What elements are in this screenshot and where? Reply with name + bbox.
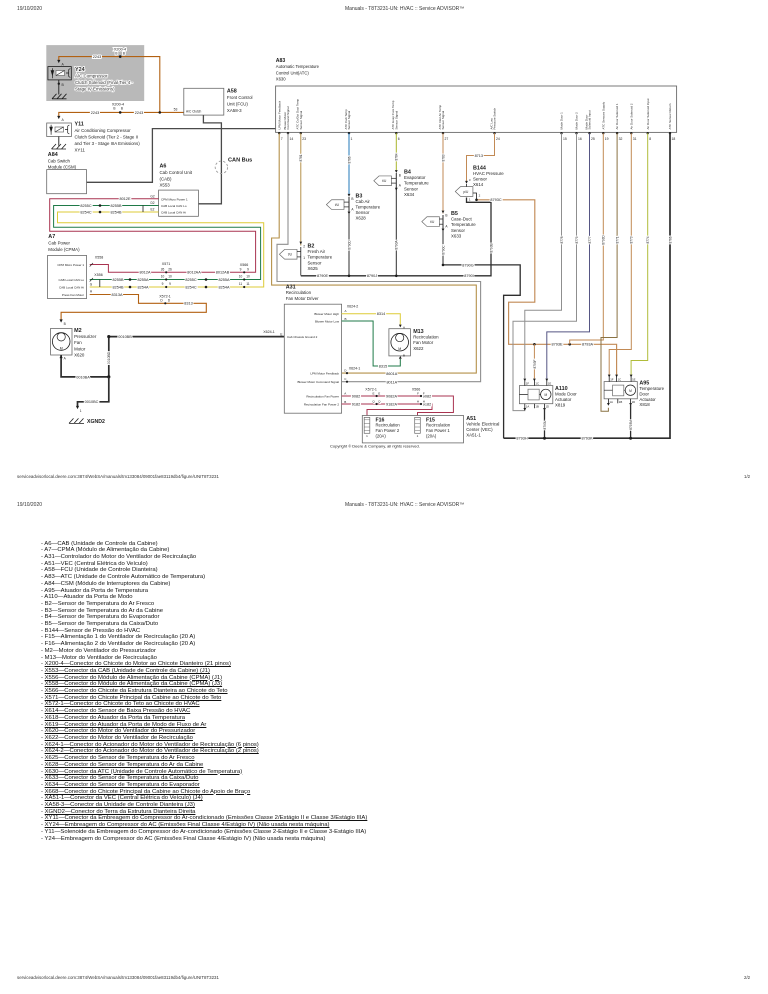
fuse F16 <box>364 417 370 433</box>
svg-text:31: 31 <box>633 137 637 141</box>
svg-text:F: F <box>417 391 419 395</box>
svg-text:Recirculation: Recirculation <box>426 423 451 428</box>
svg-text:CPM Micro Power 1: CPM Micro Power 1 <box>161 197 188 201</box>
svg-text:B: B <box>113 107 115 111</box>
wire 8774 (pin8 to A95 1E) <box>631 133 648 375</box>
svg-text:Pressurizer: Pressurizer <box>74 334 97 339</box>
svg-text:1E: 1E <box>548 382 552 386</box>
svg-text:Automatic Temperature: Automatic Temperature <box>276 64 320 69</box>
svg-text:X630: X630 <box>276 77 286 82</box>
svg-text:Actuator: Actuator <box>555 397 572 402</box>
svg-text:3: 3 <box>469 178 471 182</box>
svg-text:8786: 8786 <box>347 156 351 163</box>
svg-text:B: B <box>115 52 117 56</box>
svg-text:X628: X628 <box>356 216 367 221</box>
svg-text:A84: A84 <box>48 152 58 158</box>
svg-text:9182A: 9182A <box>386 402 397 406</box>
svg-text:B: B <box>345 317 347 321</box>
svg-text:11: 11 <box>246 282 250 286</box>
svg-text:Temperature: Temperature <box>308 255 333 260</box>
wire 8793C/8793E/8793A (sensor supply) <box>477 200 617 375</box>
svg-text:Vehicle Electrical: Vehicle Electrical <box>466 421 499 426</box>
svg-text:6: 6 <box>398 137 400 141</box>
svg-text:8255A: 8255A <box>219 278 230 282</box>
CAN terminator stub (A7) <box>99 280 101 288</box>
wire 8784 (A83 pin6 to B4) <box>395 133 397 170</box>
wire 8790E/8790J/8790I (sensor return) <box>301 198 491 276</box>
svg-text:A: A <box>445 224 448 228</box>
svg-text:CAB Local CAN Lo: CAB Local CAN Lo <box>161 204 187 208</box>
wire Y11 to ground <box>58 137 60 146</box>
svg-text:CPM Micro Power 1: CPM Micro Power 1 <box>57 263 84 267</box>
ground XGND2 <box>69 418 84 423</box>
svg-text:1: 1 <box>303 256 305 260</box>
svg-text:CAN Bus: CAN Bus <box>228 158 252 164</box>
wire 8313A/8313 (A7 to M2) <box>61 295 206 320</box>
svg-text:X572-1: X572-1 <box>365 388 377 392</box>
svg-text:23: 23 <box>302 137 306 141</box>
svg-text:8773: 8773 <box>630 236 634 243</box>
svg-text:2: 2 <box>303 244 305 248</box>
svg-text:CAB Local CAN Hi: CAB Local CAN Hi <box>161 210 186 214</box>
svg-text:B: B <box>403 354 405 358</box>
svg-text:X624-1: X624-1 <box>263 330 275 334</box>
svg-text:8793D: 8793D <box>602 235 606 245</box>
svg-text:8793E: 8793E <box>552 343 563 347</box>
svg-text:Door: Door <box>639 391 649 396</box>
svg-text:A58: A58 <box>227 88 237 94</box>
svg-text:X634: X634 <box>404 192 415 197</box>
svg-text:8784: 8784 <box>395 153 399 160</box>
svg-text:B: B <box>351 197 353 201</box>
svg-text:8781: 8781 <box>299 154 303 161</box>
svg-text:Mode Door 2: Mode Door 2 <box>575 112 579 130</box>
svg-text:Clutch Solenoid (Final Tier 4: Clutch Solenoid (Final Tier 4 - <box>75 80 133 85</box>
svg-text:1: 1 <box>80 409 82 413</box>
svg-text:D: D <box>344 369 347 373</box>
svg-text:t/U: t/U <box>382 179 387 183</box>
svg-text:Command Signal: Command Signal <box>286 106 290 129</box>
svg-text:D: D <box>168 299 171 303</box>
svg-text:15: 15 <box>563 137 567 141</box>
svg-text:H: H <box>90 289 93 293</box>
svg-text:Mode Door 1: Mode Door 1 <box>560 112 564 130</box>
svg-text:10: 10 <box>246 275 250 279</box>
svg-text:A/C Compressor: A/C Compressor <box>75 73 108 78</box>
actuator A95 (temperature door) <box>604 382 637 399</box>
svg-text:Stage IV Emissions): Stage IV Emissions) <box>75 87 115 92</box>
svg-text:2243: 2243 <box>93 55 101 59</box>
svg-text:8793H: 8793H <box>516 437 527 441</box>
wire 0010BC to ground XGND2 <box>78 377 109 407</box>
svg-text:Sensor: Sensor <box>451 228 465 233</box>
svg-text:0010BB: 0010BB <box>118 335 132 339</box>
svg-text:(20A): (20A) <box>376 434 387 439</box>
svg-text:Fan Motor: Fan Motor <box>413 340 434 345</box>
svg-text:Recirculation: Recirculation <box>413 335 439 340</box>
svg-text:8254B: 8254B <box>113 285 124 289</box>
motor M13 (recirculation fan) <box>399 325 402 328</box>
svg-text:2243: 2243 <box>135 111 143 115</box>
svg-text:8793K: 8793K <box>582 437 593 441</box>
wire 8793D (pin19 to supply) <box>570 133 604 344</box>
svg-text:XY11: XY11 <box>75 148 86 153</box>
svg-text:Air Door Solenoid 2: Air Door Solenoid 2 <box>629 103 633 129</box>
svg-text:Recirculation Fan Power 2: Recirculation Fan Power 2 <box>304 403 340 407</box>
svg-text:X556: X556 <box>94 273 102 277</box>
svg-text:Sensor Signal: Sensor Signal <box>299 110 303 129</box>
svg-text:1B: 1B <box>535 405 539 409</box>
svg-text:1D: 1D <box>546 405 550 409</box>
svg-text:HVAC Pressure: HVAC Pressure <box>473 171 504 176</box>
svg-text:1: 1 <box>469 198 471 202</box>
svg-text:Temperature: Temperature <box>639 386 664 391</box>
svg-text:t/U: t/U <box>430 220 435 224</box>
svg-text:M: M <box>60 346 63 350</box>
ground (Y24) <box>52 94 67 99</box>
svg-text:and Tier 3 - Stage IIIA Emissi: and Tier 3 - Stage IIIA Emissions) <box>75 141 141 146</box>
svg-text:8793F: 8793F <box>533 359 537 368</box>
svg-text:Fan: Fan <box>74 340 82 345</box>
svg-text:Copyright © Deere & Company, a: Copyright © Deere & Company, all rights … <box>330 443 420 448</box>
svg-text:Sensor: Sensor <box>308 260 322 265</box>
svg-text:Sensor Signal: Sensor Signal <box>441 110 445 129</box>
svg-text:Center (VEC): Center (VEC) <box>466 427 493 432</box>
svg-text:B: B <box>344 400 346 404</box>
svg-text:9: 9 <box>247 268 249 272</box>
svg-text:14: 14 <box>290 137 294 141</box>
motor M2 (pressurizer fan) <box>60 319 63 322</box>
svg-text:Cab Chassis Ground 2: Cab Chassis Ground 2 <box>287 335 318 339</box>
svg-text:(CAB): (CAB) <box>160 176 172 181</box>
svg-text:Temperature: Temperature <box>356 205 381 210</box>
svg-text:F: F <box>423 391 425 395</box>
svg-text:Y24: Y24 <box>75 67 85 73</box>
svg-text:E: E <box>372 391 374 395</box>
svg-text:X624-1: X624-1 <box>349 367 361 371</box>
fuse F15 <box>415 417 421 433</box>
wire 8793L (A110 1D to ground line) <box>544 408 546 438</box>
svg-text:8254A: 8254A <box>219 285 230 289</box>
wire 8779 (pin16 to A110 1A) <box>513 133 577 410</box>
svg-text:Recirculation Fan Power: Recirculation Fan Power <box>306 394 339 398</box>
svg-text:XA51-1: XA51-1 <box>466 432 481 437</box>
svg-text:Blower Motor Command Signal: Blower Motor Command Signal <box>297 380 339 384</box>
svg-text:E: E <box>378 391 380 395</box>
svg-text:Motor: Motor <box>74 346 86 351</box>
wire 8777 (pin25 to A110 1E) <box>547 133 590 378</box>
svg-text:X622: X622 <box>413 346 424 351</box>
svg-text:Sensor: Sensor <box>473 177 487 182</box>
svg-text:X558: X558 <box>95 256 103 260</box>
svg-text:A: A <box>345 309 347 313</box>
svg-text:11: 11 <box>239 282 243 286</box>
svg-text:ATC Sensor Return: ATC Sensor Return <box>668 103 672 129</box>
svg-text:1F: 1F <box>526 382 530 386</box>
svg-text:8793L: 8793L <box>543 420 547 429</box>
svg-text:0010BA: 0010BA <box>76 375 90 379</box>
svg-text:9: 9 <box>169 282 171 286</box>
wire 8793F (supply to A110 1C) <box>533 344 535 378</box>
svg-text:8255B: 8255B <box>111 204 122 208</box>
svg-text:Blower Motor High: Blower Motor High <box>314 312 339 316</box>
svg-text:G: G <box>90 283 93 287</box>
wire 9182 (A31 recirc fan power 2 to F16) <box>342 404 432 416</box>
svg-text:8790C: 8790C <box>441 245 445 255</box>
svg-text:X625: X625 <box>308 266 319 271</box>
svg-text:8012AA: 8012AA <box>187 271 201 275</box>
svg-text:Fan Motor Driver: Fan Motor Driver <box>286 296 319 301</box>
wire 8012E/8012A loop (A6 to A7) <box>50 199 256 272</box>
svg-text:Sensor Signal: Sensor Signal <box>394 110 398 129</box>
wire CAN (A84 to A83) <box>87 129 276 183</box>
svg-text:A: A <box>344 392 346 396</box>
svg-text:Unit (FCU): Unit (FCU) <box>227 102 249 107</box>
wire M2 pin A <box>61 355 109 377</box>
svg-text:D: D <box>160 299 163 303</box>
svg-text:Module (CPMA): Module (CPMA) <box>48 247 80 252</box>
svg-text:1: 1 <box>351 137 353 141</box>
svg-text:CAB Local CAN Hi: CAB Local CAN Hi <box>59 285 84 289</box>
pressure sensor B144 (HVAC) <box>465 181 468 184</box>
svg-text:X553: X553 <box>160 183 171 188</box>
svg-text:10: 10 <box>161 275 165 279</box>
svg-text:10: 10 <box>168 275 172 279</box>
svg-text:8315: 8315 <box>379 364 387 368</box>
svg-text:A: A <box>351 208 354 212</box>
svg-text:1C: 1C <box>618 378 622 382</box>
svg-text:XA58-3: XA58-3 <box>227 108 242 113</box>
svg-text:8255B: 8255B <box>113 278 124 282</box>
svg-text:B: B <box>399 173 401 177</box>
svg-text:M: M <box>398 347 401 351</box>
svg-text:ATC Sensors Supply: ATC Sensors Supply <box>601 101 605 129</box>
svg-text:10: 10 <box>239 275 243 279</box>
svg-text:Recirculation: Recirculation <box>286 290 312 295</box>
svg-text:8783: 8783 <box>441 154 445 161</box>
svg-text:Cab Power: Cab Power <box>48 240 70 245</box>
svg-text:53: 53 <box>174 108 178 112</box>
svg-text:8255C: 8255C <box>185 278 196 282</box>
ground (XY11) <box>52 144 67 149</box>
svg-text:Evaporator: Evaporator <box>404 175 426 180</box>
svg-text:t/U: t/U <box>288 253 293 257</box>
svg-text:1B: 1B <box>619 400 623 404</box>
wire 8255 loop (A6 to A7) <box>54 206 261 280</box>
svg-text:8790I: 8790I <box>464 274 474 278</box>
svg-text:Sensor: Sensor <box>404 186 418 191</box>
svg-text:8793M: 8793M <box>629 420 633 430</box>
svg-text:8012A: 8012A <box>140 271 151 275</box>
svg-text:8779: 8779 <box>575 236 579 243</box>
svg-text:8713: 8713 <box>475 154 483 158</box>
wire 8315 (A31 to M13 B) <box>342 321 401 366</box>
svg-text:8313: 8313 <box>184 302 192 306</box>
svg-text:Cab Switch: Cab Switch <box>48 158 71 163</box>
svg-text:8790A: 8790A <box>395 240 399 250</box>
svg-text:X571: X571 <box>162 262 170 266</box>
svg-text:9082A: 9082A <box>386 394 397 398</box>
svg-text:A7: A7 <box>48 234 55 240</box>
solenoid Y11 <box>47 123 72 137</box>
CAN terminator stub (A6) <box>142 206 144 213</box>
svg-text:8790J: 8790J <box>367 274 377 278</box>
svg-text:1E: 1E <box>632 378 636 382</box>
svg-text:B: B <box>445 214 447 218</box>
svg-text:9: 9 <box>162 282 164 286</box>
temperature sensor B2 (fresh air) <box>299 242 302 245</box>
svg-text:9: 9 <box>240 268 242 272</box>
svg-text:8793C: 8793C <box>490 198 501 202</box>
svg-text:1F: 1F <box>610 378 614 382</box>
wire Y24 to ground <box>58 80 60 95</box>
svg-text:Module (CSM): Module (CSM) <box>48 164 77 169</box>
svg-text:8777: 8777 <box>588 236 592 243</box>
svg-text:8793B: 8793B <box>489 243 493 252</box>
wire 8766/8793H/8793K (ATC sensor return to ground line) <box>504 133 670 438</box>
svg-text:8254C: 8254C <box>185 285 196 289</box>
temperature sensor B5 (case/duct) <box>442 211 445 214</box>
svg-text:Blower Motor Low: Blower Motor Low <box>315 319 340 323</box>
svg-text:X566: X566 <box>240 263 248 267</box>
svg-text:Fan Power 2: Fan Power 2 <box>376 428 400 433</box>
svg-text:X620: X620 <box>74 353 85 358</box>
wire 8771 (pin32 to A95 1A) <box>601 133 617 411</box>
svg-text:Q: Q <box>378 399 381 403</box>
svg-text:8255C: 8255C <box>80 204 91 208</box>
svg-text:t/U: t/U <box>335 203 340 207</box>
wire 8778 (pin15 to A110 1F) <box>525 133 562 378</box>
actuator A110 (mode door) <box>519 386 552 404</box>
svg-text:8778: 8778 <box>560 236 564 243</box>
svg-text:Temperature: Temperature <box>404 181 429 186</box>
svg-text:B: B <box>121 107 123 111</box>
wire 8601A (A83 pin7 to A31 LPM feedback) <box>272 133 477 373</box>
svg-text:Sensor Signal: Sensor Signal <box>347 110 351 129</box>
svg-text:M: M <box>629 389 632 393</box>
svg-text:16: 16 <box>578 137 582 141</box>
svg-text:A: A <box>399 184 402 188</box>
svg-text:9082: 9082 <box>352 394 360 398</box>
svg-text:Solenoid Input: Solenoid Input <box>588 110 592 129</box>
svg-text:8254B: 8254B <box>111 210 122 214</box>
wire 8781 (A83 pin23 to B2) <box>300 133 302 245</box>
wire CAN bus (A58 to A6) <box>199 115 222 204</box>
svg-text:8011A: 8011A <box>386 380 397 384</box>
svg-text:LPM Motor Feedback: LPM Motor Feedback <box>277 100 281 129</box>
svg-text:A/C Clutch: A/C Clutch <box>186 109 201 113</box>
svg-text:A6: A6 <box>160 164 167 170</box>
svg-text:8255A: 8255A <box>138 278 149 282</box>
svg-text:C: C <box>344 377 347 381</box>
svg-text:XGND2: XGND2 <box>87 419 105 425</box>
svg-text:19: 19 <box>605 137 609 141</box>
svg-text:H: H <box>417 399 419 403</box>
VEC A51 <box>362 416 463 443</box>
svg-text:8793A: 8793A <box>582 343 593 347</box>
svg-text:8601A: 8601A <box>386 372 397 376</box>
svg-text:8790E: 8790E <box>317 274 328 278</box>
svg-text:8790G: 8790G <box>462 263 473 267</box>
wire 9082 (A31 recirc fan power to F15) <box>342 396 454 416</box>
svg-text:Control Unit(ATC): Control Unit(ATC) <box>276 70 310 75</box>
solenoid Y24 <box>48 67 71 80</box>
svg-text:H: H <box>423 399 425 403</box>
svg-text:M2: M2 <box>74 328 82 334</box>
svg-text:1A: 1A <box>526 405 530 409</box>
svg-text:9182: 9182 <box>352 402 360 406</box>
svg-text:p/U: p/U <box>463 190 469 194</box>
wire 2243 (Y24 to X200-4) <box>59 57 160 113</box>
temperature sensor B4 (evaporator) <box>395 170 398 173</box>
svg-text:X633: X633 <box>451 233 462 238</box>
svg-text:G2: G2 <box>150 194 154 198</box>
svg-text:26: 26 <box>161 268 165 272</box>
svg-text:Front Control: Front Control <box>227 95 253 100</box>
svg-text:0010BC: 0010BC <box>85 400 99 404</box>
svg-text:1C: 1C <box>535 382 539 386</box>
svg-text:Recirculation: Recirculation <box>376 423 401 428</box>
svg-text:8012E: 8012E <box>120 197 131 201</box>
svg-text:A83: A83 <box>276 58 286 64</box>
svg-text:LPM Motor Feedback: LPM Motor Feedback <box>310 371 339 375</box>
svg-text:X614: X614 <box>473 182 484 187</box>
svg-text:8771: 8771 <box>616 236 620 243</box>
svg-text:2: 2 <box>479 193 481 197</box>
wire 8773 (pin31 to A95 1F) <box>609 133 631 375</box>
wire 0010BB (M2 junction to A31 ground) <box>109 337 284 377</box>
svg-text:27: 27 <box>445 137 449 141</box>
wire 8314 (A31 to M13 A) <box>342 314 401 325</box>
svg-text:8790D: 8790D <box>347 240 351 250</box>
svg-text:A: A <box>62 118 65 122</box>
svg-text:B: B <box>64 322 66 326</box>
svg-text:Temperature: Temperature <box>451 222 476 227</box>
wire 8713 (A83 pin24 to B144) <box>467 133 495 181</box>
svg-text:8774: 8774 <box>646 236 650 243</box>
wire 8011A (A83 pin14 to A31 command signal) <box>277 133 481 382</box>
svg-text:Case-Duct: Case-Duct <box>451 217 473 222</box>
svg-text:8313A: 8313A <box>112 293 123 297</box>
svg-text:Air Door Solenoid Input: Air Door Solenoid Input <box>646 98 650 129</box>
svg-text:Pressure Switch: Pressure Switch <box>493 107 497 129</box>
svg-text:32: 32 <box>619 137 623 141</box>
svg-text:Q: Q <box>372 399 375 403</box>
svg-text:Cab Air: Cab Air <box>356 199 371 204</box>
svg-text:E: E <box>280 332 282 336</box>
FCU A58 <box>184 88 224 115</box>
svg-text:E2: E2 <box>151 208 155 212</box>
svg-text:2243: 2243 <box>91 111 99 115</box>
svg-text:8254C: 8254C <box>80 210 91 214</box>
svg-text:A: A <box>64 357 67 361</box>
svg-text:26: 26 <box>168 268 172 272</box>
svg-text:8314: 8314 <box>377 312 385 316</box>
svg-text:(20A): (20A) <box>426 434 437 439</box>
svg-text:B: B <box>123 52 125 56</box>
gray panel (Y24 not-used shading) <box>46 45 144 101</box>
svg-text:M: M <box>544 393 547 397</box>
svg-text:18: 18 <box>672 137 676 141</box>
svg-text:X624-2: X624-2 <box>347 304 359 308</box>
svg-text:24: 24 <box>496 137 500 141</box>
svg-text:0010BD: 0010BD <box>107 351 111 364</box>
svg-text:Cab Control Unit: Cab Control Unit <box>160 170 193 175</box>
svg-text:Actuator: Actuator <box>639 397 656 402</box>
wire 8254 loop (A6 to A7) <box>58 212 264 287</box>
temperature sensor B3 (cab air) <box>348 194 351 197</box>
svg-text:X819: X819 <box>555 403 566 408</box>
